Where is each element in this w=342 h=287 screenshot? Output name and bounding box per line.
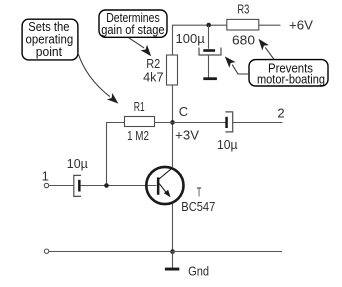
wire R1 left down to base line [107,123,125,186]
svg-text:R1: R1 [134,99,145,114]
callout: Determines gain of stage [99,10,167,37]
resistor R1 [125,117,155,127]
resistor R2 [167,55,178,85]
arrow from Prevents callout to 100u cap [222,54,249,74]
ground Gnd [165,268,179,271]
capacitor C3 10u output [225,112,232,132]
svg-text:10µ: 10µ [67,156,88,171]
svg-text:T: T [197,184,202,199]
svg-text:BC547: BC547 [181,199,215,214]
arrow from Prevents callout to 680 [255,36,274,59]
capacitor C1 10u input [74,175,81,196]
ground (100u) [203,77,217,80]
node C junction [170,120,175,125]
wire R2 bottom to collector [172,85,174,167]
wire top rail right (R3 to +6V) [259,24,281,26]
terminal bottom left [44,249,48,253]
wire ground stub [172,252,174,268]
svg-text:1 M2: 1 M2 [127,128,149,143]
capacitor C2 100u [199,48,221,56]
svg-text:R3: R3 [237,1,249,16]
resistor R3 [227,19,259,30]
node junction top rail / 100u [206,23,211,28]
wire emitter down [172,204,174,252]
svg-text:+3V: +3V [175,128,199,143]
wire terminal 1 to input cap [49,185,74,187]
wire ground rail [49,251,282,253]
node junction base / R1 [104,183,109,188]
svg-text:4k7: 4k7 [143,69,164,84]
transistor T BC547 [146,167,183,204]
svg-text:1: 1 [42,168,49,183]
terminal 1 [44,183,48,187]
arrow from Determines-gain callout to R2 [129,38,155,59]
callout: Prevents motor-boating [249,60,328,87]
wire node C to output cap [173,122,226,124]
wire 100u bottom [208,55,210,78]
wire 100u top [208,25,210,49]
node junction emitter / ground rail [170,249,175,254]
svg-text:point: point [36,45,63,59]
svg-text:10µ: 10µ [217,137,238,152]
svg-text:+6V: +6V [289,18,313,33]
svg-text:motor-boating: motor-boating [257,73,325,87]
svg-text:680: 680 [232,32,255,47]
callout: Sets the operating point [22,19,78,60]
arrow from Sets-the-operating-point callout to R1 [78,53,121,107]
wire R1 right to node C [155,122,173,124]
svg-text:C: C [179,104,188,119]
wire input cap to base [81,185,157,187]
svg-text:Gnd: Gnd [188,264,209,279]
svg-text:2: 2 [277,106,284,121]
svg-text:100µ: 100µ [176,31,206,46]
svg-text:gain of stage: gain of stage [101,23,164,37]
wire output cap to terminal 2 [233,122,283,124]
wire top rail left (R2 top to R3 left) [173,25,228,55]
